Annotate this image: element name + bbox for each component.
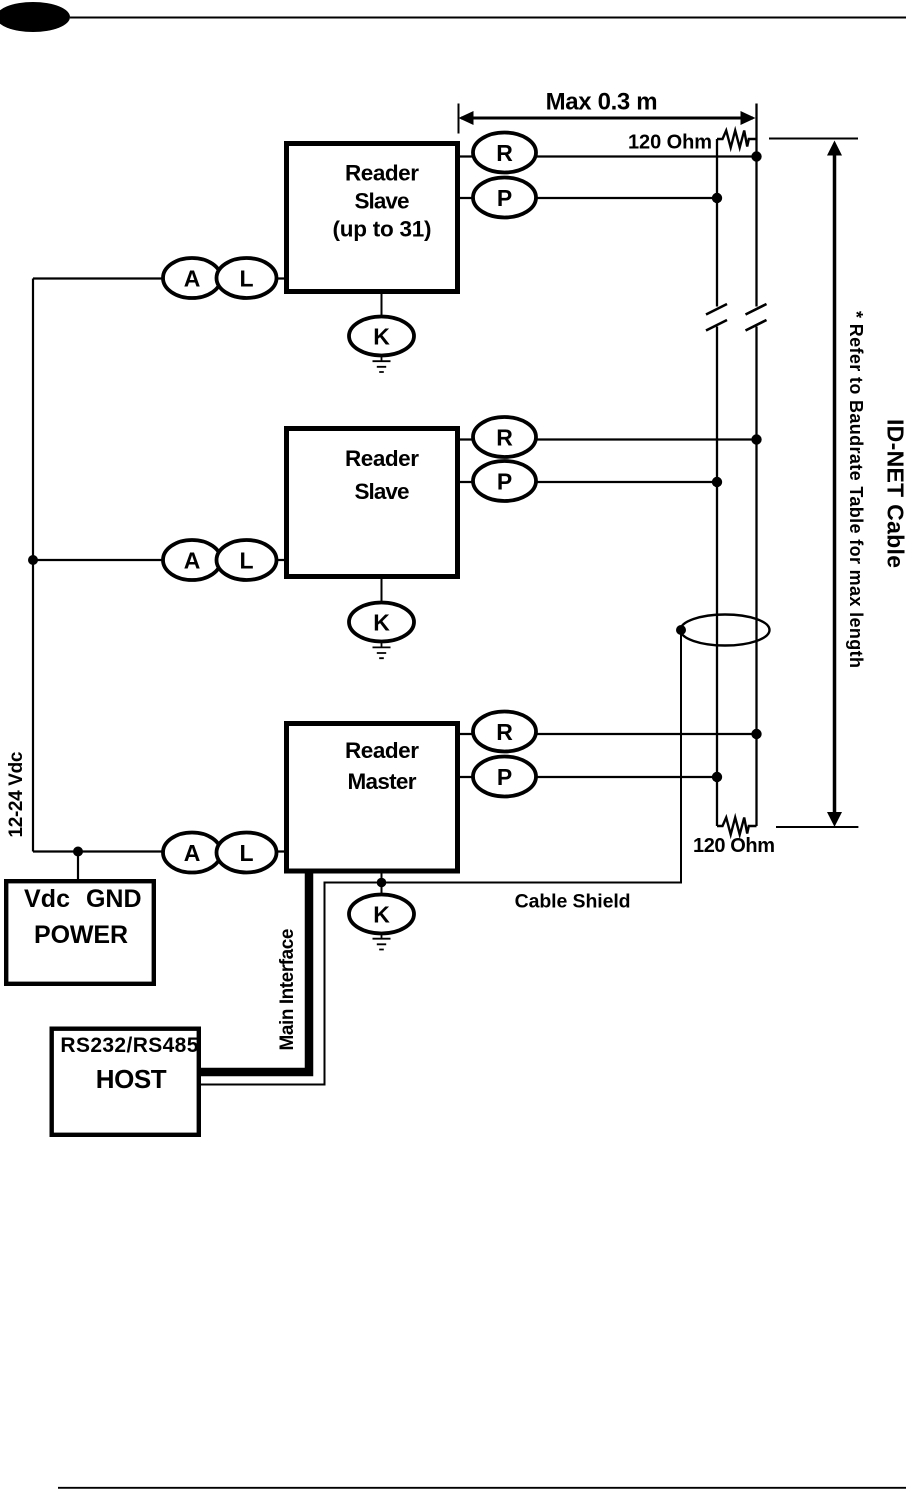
svg-text:12-24 Vdc: 12-24 Vdc xyxy=(6,751,27,837)
wire: P1 to left bus xyxy=(460,197,717,199)
ground K1 xyxy=(373,356,391,373)
svg-text:R: R xyxy=(496,140,513,166)
svg-text:R: R xyxy=(496,425,513,451)
terminal A2 xyxy=(163,540,221,580)
svg-text:Slave: Slave xyxy=(355,189,410,214)
box HOST xyxy=(52,1029,199,1135)
cable shield ellipse xyxy=(681,615,770,646)
svg-text:Reader: Reader xyxy=(345,446,419,471)
junction node R2 xyxy=(751,434,761,444)
svg-text:POWER: POWER xyxy=(34,921,128,949)
resistor 120 Ohm top termination xyxy=(717,131,757,148)
box Reader Slave (up to 31) xyxy=(287,144,458,292)
svg-text:P: P xyxy=(497,469,512,495)
svg-text:120 Ohm: 120 Ohm xyxy=(628,132,712,154)
ground K2 xyxy=(373,642,391,659)
svg-text:Vdc: Vdc xyxy=(24,885,70,913)
svg-text:Main Interface: Main Interface xyxy=(277,929,298,1051)
cable break marks right bus xyxy=(746,304,767,331)
wire: cable shield run to host xyxy=(201,630,681,1085)
wire: row2 A/L horizontal xyxy=(33,559,284,561)
junction node R3 xyxy=(751,729,761,739)
junction node shield xyxy=(676,625,686,635)
wire: left power bus vertical xyxy=(32,279,34,852)
wire: main interface thick xyxy=(201,871,309,1072)
wire: ID-NET left bus (P line) xyxy=(716,139,718,826)
wire: K1 stub xyxy=(381,294,383,317)
svg-text:K: K xyxy=(373,324,390,350)
wire: R3 to right bus xyxy=(460,733,757,735)
dimension arrow ID-NET cable length xyxy=(769,139,858,828)
svg-text:K: K xyxy=(373,902,390,928)
svg-text:Master: Master xyxy=(348,769,417,794)
svg-text:A: A xyxy=(184,548,201,574)
terminal L2 xyxy=(217,540,277,580)
svg-text:L: L xyxy=(239,548,253,574)
svg-text:ID-NET Cable: ID-NET Cable xyxy=(883,419,909,568)
svg-text:Reader: Reader xyxy=(345,738,419,763)
svg-text:Cable Shield: Cable Shield xyxy=(515,890,631,912)
cable break marks left bus xyxy=(706,304,727,331)
header rule xyxy=(70,17,906,19)
ground K3 xyxy=(373,934,391,950)
terminal L1 xyxy=(217,258,277,298)
terminal P1 xyxy=(473,178,536,218)
junction node R1 xyxy=(751,151,761,161)
svg-text:P: P xyxy=(497,185,512,211)
svg-text:GND: GND xyxy=(86,885,142,913)
wire: K3 stub xyxy=(381,874,383,896)
svg-text:A: A xyxy=(184,266,201,292)
terminal P3 xyxy=(473,757,536,797)
svg-text:* Refer to Baudrate Table for: * Refer to Baudrate Table for max length xyxy=(846,311,866,668)
svg-text:RS232/RS485: RS232/RS485 xyxy=(60,1034,198,1057)
wire: row1 A/L horizontal xyxy=(33,277,284,279)
wire: row3 A/L horizontal xyxy=(33,850,284,852)
svg-text:Reader: Reader xyxy=(345,161,419,186)
svg-text:Max 0.3 m: Max 0.3 m xyxy=(546,89,658,116)
junction node P2 xyxy=(712,477,722,487)
header logo ellipse xyxy=(0,2,70,32)
svg-text:120 Ohm: 120 Ohm xyxy=(693,835,775,857)
wire: ID-NET right bus (R line) xyxy=(755,104,757,827)
wire: power drop stub xyxy=(77,852,79,880)
dimension arrow Max 0.3 m xyxy=(459,104,756,134)
wire: R2 to right bus xyxy=(460,438,757,440)
terminal R2 xyxy=(473,417,536,457)
junction node power drop xyxy=(73,847,83,857)
terminal R3 xyxy=(473,712,536,752)
svg-text:R: R xyxy=(496,719,513,745)
wire: P3 to left bus xyxy=(460,776,717,778)
terminal A1 xyxy=(163,258,221,298)
terminal R1 xyxy=(473,133,536,173)
junction node K3 shield xyxy=(377,878,387,888)
junction node P1 xyxy=(712,193,722,203)
wire: R1 to right bus xyxy=(460,155,757,157)
wire: K2 stub xyxy=(381,579,383,603)
svg-text:K: K xyxy=(373,610,390,636)
terminal K3 xyxy=(349,895,414,934)
svg-text:(up to 31): (up to 31) xyxy=(333,217,432,242)
terminal A3 xyxy=(163,833,221,873)
svg-text:P: P xyxy=(497,764,512,790)
svg-text:A: A xyxy=(184,840,201,866)
wire: P2 to left bus xyxy=(460,481,717,483)
box Reader Master xyxy=(287,724,458,872)
resistor 120 Ohm bottom termination xyxy=(717,818,757,835)
svg-text:L: L xyxy=(239,840,253,866)
terminal P2 xyxy=(473,461,536,501)
svg-text:Slave: Slave xyxy=(355,479,410,504)
box Reader Slave 2 xyxy=(287,429,458,577)
terminal K2 xyxy=(349,603,414,642)
box POWER xyxy=(6,881,154,984)
terminal L3 xyxy=(217,833,277,873)
svg-text:HOST: HOST xyxy=(96,1064,167,1094)
terminal K1 xyxy=(349,317,414,356)
svg-text:L: L xyxy=(239,266,253,292)
junction node P3 xyxy=(712,772,722,782)
junction node power bus row2 xyxy=(28,555,38,565)
footer rule xyxy=(58,1487,906,1489)
